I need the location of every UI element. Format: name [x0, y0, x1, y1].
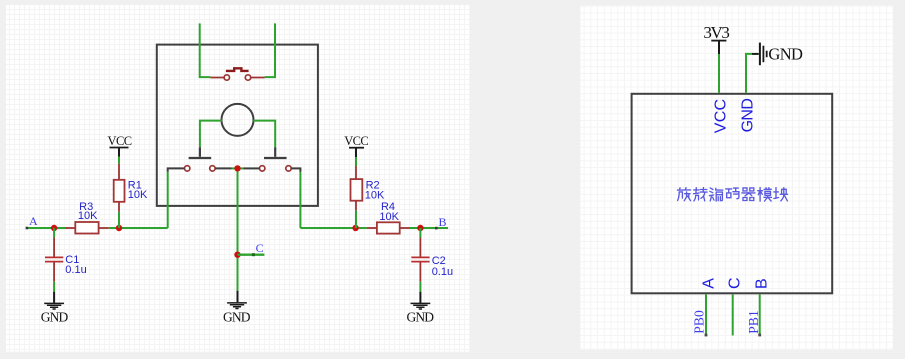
left schematic sheet	[6, 5, 470, 352]
wire: circle left to switch A actuator	[200, 121, 222, 148]
svg-text:C: C	[256, 241, 264, 255]
glyph 码	[726, 188, 739, 199]
resistor R2 lead bottom	[355, 201, 357, 211]
module U1 body rectangle	[632, 94, 833, 293]
power ground bar symbol	[752, 43, 767, 66]
switch A actuator	[189, 147, 212, 158]
wire: switch B inner to center	[244, 167, 260, 169]
svg-text:VCC: VCC	[344, 134, 369, 148]
glyph 转	[694, 188, 708, 201]
junction: R2 bottom	[352, 225, 358, 231]
ground GND center	[227, 303, 247, 309]
wire: 3V3 to VCC pin	[718, 54, 720, 93]
svg-text:GND: GND	[223, 309, 251, 324]
svg-text:10K: 10K	[365, 190, 385, 202]
wire: bus R3 to left drop	[109, 227, 168, 229]
right schematic sheet	[581, 6, 894, 350]
svg-text:A: A	[29, 214, 38, 228]
wire: pin B down	[759, 294, 761, 335]
push button SW leads	[210, 77, 264, 79]
wire: switch B outer to right drop	[291, 168, 300, 172]
svg-text:B: B	[754, 278, 771, 289]
wire: C2 column	[419, 228, 421, 238]
resistor R3 lead right	[99, 227, 109, 229]
capacitor C1 plates	[45, 257, 63, 261]
encoder shaft circle	[222, 104, 254, 136]
wire: VCC to R1	[118, 157, 120, 164]
wire: right drop down to bus	[299, 172, 301, 228]
push button actuator bar	[226, 68, 249, 71]
wire: circle right to switch B actuator	[253, 121, 275, 148]
junction: C1 top	[51, 225, 57, 231]
resistor R1 body	[114, 180, 125, 202]
wire: A bus segment	[26, 227, 65, 229]
svg-text:GND: GND	[739, 98, 756, 132]
ground GND left	[44, 292, 64, 309]
svg-text:GND: GND	[768, 45, 803, 64]
node C junction	[234, 252, 240, 258]
power VCC right bar	[349, 147, 364, 149]
svg-text:C2: C2	[432, 255, 446, 267]
capacitor C1 lead top	[53, 238, 55, 257]
wire: C1 to GND	[53, 281, 55, 291]
glyph 编	[709, 188, 722, 201]
resistor R4 body	[377, 222, 400, 233]
wire: R2 to bus	[355, 211, 357, 228]
net label B tick	[435, 227, 438, 230]
resistor R2 body	[351, 179, 363, 201]
svg-text:10K: 10K	[379, 211, 399, 223]
svg-text:3V3: 3V3	[703, 23, 730, 42]
svg-text:PB1: PB1	[746, 310, 761, 334]
svg-text:A: A	[701, 278, 718, 289]
junction: C2 top	[417, 225, 423, 231]
wire: left drop down to bus	[167, 172, 169, 228]
wire: center to GND	[237, 291, 239, 303]
power VCC left bar	[110, 147, 129, 149]
resistor R2 lead top	[355, 166, 357, 179]
net label PB1 tick	[758, 334, 761, 337]
net label C tick	[252, 253, 255, 256]
wire: R1 to bus	[118, 212, 120, 228]
push button contact circles	[224, 75, 229, 80]
wire: right drop to R2 junction	[300, 227, 366, 229]
wire: C2 to GND	[419, 281, 421, 291]
svg-text:PB0: PB0	[692, 310, 707, 334]
switch B contacts	[260, 166, 265, 171]
capacitor C2 plates	[411, 257, 429, 261]
svg-text:10K: 10K	[128, 189, 148, 201]
wire: node C stub	[238, 253, 265, 255]
svg-text:0.1u: 0.1u	[65, 264, 86, 276]
resistor R1 lead bottom	[118, 202, 120, 212]
svg-text:0.1u: 0.1u	[432, 266, 453, 278]
wire: R4 to node B	[410, 227, 448, 229]
junction: R1 bottom	[116, 225, 122, 231]
svg-text:C: C	[726, 277, 743, 289]
svg-text:VCC: VCC	[108, 134, 133, 148]
capacitor C2 lead top	[419, 238, 421, 257]
glyph 旋	[677, 188, 690, 201]
junction: switch common	[234, 165, 240, 171]
net label PB0 tick	[705, 334, 708, 337]
net label A tick	[26, 227, 29, 230]
capacitor C2 lead bottom	[419, 263, 421, 282]
module title 旋转编码器模块 (drawn strokes)	[677, 188, 787, 202]
wire: switch A outer to left drop	[168, 168, 185, 172]
wire: top-left vertical to push button	[199, 23, 211, 77]
power VCC left stub	[118, 148, 120, 157]
switch B actuator	[264, 147, 287, 158]
resistor R1 lead top	[118, 164, 120, 180]
svg-text:GND: GND	[41, 309, 69, 324]
resistor R3 lead left	[65, 227, 75, 229]
wire: switch A inner to center	[215, 167, 232, 169]
capacitor C1 lead bottom	[53, 263, 55, 282]
svg-text:GND: GND	[407, 309, 435, 324]
wire: GND pin up	[746, 54, 758, 93]
wire: center green stubs	[232, 167, 244, 169]
glyph 块	[774, 188, 788, 201]
power 3V3 bar	[711, 40, 726, 42]
resistor R4 lead left	[367, 227, 377, 229]
wire: top-right vertical to push button	[265, 23, 276, 77]
svg-text:VCC: VCC	[713, 99, 730, 133]
wire: VCC to R2	[355, 157, 357, 166]
wire: C1 column	[53, 228, 55, 238]
glyph 模	[758, 188, 772, 202]
power VCC right stub	[355, 148, 357, 157]
encoder body rectangle	[157, 45, 318, 206]
svg-text:B: B	[439, 215, 447, 229]
wire: pin A down	[705, 294, 707, 335]
resistor R4 lead right	[400, 227, 410, 229]
wire: pin C down	[732, 294, 734, 335]
ground GND right	[411, 292, 431, 309]
wire: center drop to node C	[237, 171, 239, 290]
glyph 器	[742, 188, 755, 201]
power 3V3 stub	[718, 41, 720, 54]
svg-text:10K: 10K	[78, 210, 98, 222]
resistor R3 body	[75, 222, 98, 234]
switch A contacts	[185, 166, 190, 171]
